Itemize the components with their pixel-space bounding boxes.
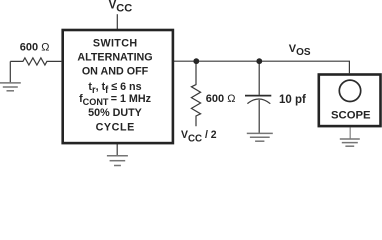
svg-text:ON AND OFF: ON AND OFF	[82, 65, 149, 77]
svg-text:ALTERNATING: ALTERNATING	[77, 51, 152, 63]
svg-text:10 pf: 10 pf	[279, 94, 306, 106]
svg-text:SWITCH: SWITCH	[93, 37, 138, 49]
svg-text:50% DUTY: 50% DUTY	[88, 107, 142, 119]
svg-text:CYCLE: CYCLE	[96, 121, 135, 133]
svg-text:SCOPE: SCOPE	[331, 110, 371, 122]
svg-text:600 Ω: 600 Ω	[20, 41, 50, 53]
svg-text:600 Ω: 600 Ω	[206, 93, 236, 105]
